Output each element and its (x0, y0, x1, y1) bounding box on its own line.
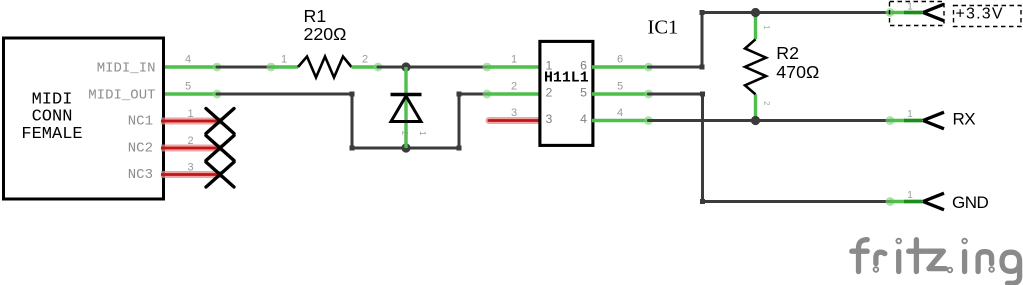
svg-text:220Ω: 220Ω (304, 24, 347, 44)
svg-text:GND: GND (952, 193, 989, 212)
wire pin6 dark up to +3.3V rail (649, 8, 895, 69)
no-connect X on NC2 (206, 136, 234, 161)
GND connector green pin (890, 200, 923, 203)
svg-text:NC1: NC1 (128, 114, 153, 130)
+3.3V arrow symbol (923, 4, 944, 21)
wire pin5 dark down to GND rail (649, 92, 895, 206)
node junction RX rail / R2 (751, 116, 760, 125)
wire green into pin 2 (487, 92, 540, 95)
wire MIDI_OUT dark detour below diode (217, 90, 491, 151)
fritzing watermark logo (852, 239, 1020, 284)
wire green vertical through diode (404, 67, 407, 148)
dashed selection box around +3.3V pin (890, 2, 945, 26)
svg-text:RX: RX (953, 110, 976, 129)
wire NC1 red stub (161, 118, 222, 125)
svg-text:1: 1 (907, 190, 913, 201)
svg-text:1: 1 (907, 2, 913, 13)
dashed selection box around +3.3V label (954, 6, 1022, 27)
wire MIDI_OUT green stub (160, 90, 221, 99)
svg-text:H11L1: H11L1 (544, 70, 589, 86)
op-coupler U1 H11L1 body (540, 41, 593, 145)
resistor R2 (745, 39, 819, 94)
diode D1 (391, 95, 428, 137)
wire pin4 dark to RX (649, 116, 895, 125)
node junction at diode top (401, 62, 410, 71)
svg-text:3: 3 (546, 112, 553, 126)
svg-text:NC3: NC3 (128, 167, 153, 183)
GND arrow symbol (923, 193, 944, 210)
svg-text:1: 1 (281, 54, 287, 66)
svg-text:2: 2 (546, 86, 553, 100)
connector J1 MIDI CONN FEMALE body (4, 38, 164, 199)
svg-text:2: 2 (762, 101, 771, 106)
svg-text:1: 1 (418, 131, 427, 136)
wire NC3 red stub (161, 171, 222, 178)
svg-text:1: 1 (546, 59, 553, 73)
svg-text:4: 4 (185, 54, 191, 66)
RX arrow symbol (923, 112, 944, 129)
svg-text:R2: R2 (776, 43, 799, 63)
svg-text:+3.3V: +3.3V (956, 6, 1004, 23)
svg-text:2: 2 (400, 131, 409, 136)
svg-text:1: 1 (907, 109, 913, 120)
svg-text:MIDI_IN: MIDI_IN (97, 61, 156, 77)
svg-text:4: 4 (617, 107, 623, 119)
svg-text:CONN: CONN (32, 108, 73, 127)
svg-text:MIDI: MIDI (32, 91, 73, 110)
svg-text:5: 5 (185, 81, 191, 93)
node junction at diode bottom (401, 143, 410, 152)
resistor R2 green stub top (754, 13, 757, 40)
wire pin5 green stub (592, 90, 653, 99)
svg-text:R1: R1 (304, 6, 327, 26)
svg-text:1: 1 (511, 54, 517, 66)
svg-text:2: 2 (187, 135, 193, 147)
svg-text:470Ω: 470Ω (776, 62, 819, 82)
svg-text:3: 3 (187, 162, 193, 174)
wire green lead to R1 (271, 65, 298, 68)
wire green lead from R1 (352, 63, 383, 72)
node junction top rail / R2 (751, 8, 760, 17)
svg-text:6: 6 (617, 54, 623, 66)
wire green into pin 1 (487, 65, 540, 68)
svg-text:NC2: NC2 (128, 141, 153, 157)
no-connect X on NC1 (206, 109, 234, 134)
no-connect X on NC3 (206, 162, 234, 187)
resistor R2 green stub bottom (754, 94, 757, 120)
svg-text:5: 5 (580, 86, 587, 100)
wire MIDI_IN green stub from connector (160, 63, 221, 72)
svg-text:FEMALE: FEMALE (21, 125, 82, 144)
wire pin6 green stub (592, 63, 653, 72)
wire MIDI_IN dark segment (217, 63, 275, 72)
RX connector green pin (890, 119, 923, 122)
+3.3V connector green pin (890, 11, 923, 14)
svg-text:1: 1 (762, 25, 771, 30)
svg-text:5: 5 (617, 81, 623, 93)
svg-text:4: 4 (580, 112, 587, 126)
svg-text:IC1: IC1 (648, 17, 679, 39)
wire pin4 green stub (592, 116, 653, 125)
svg-text:MIDI_OUT: MIDI_OUT (88, 88, 155, 104)
red stub to U1 pin 3 (489, 117, 540, 124)
wire dark segment R1 to U1 pin1 (378, 63, 491, 72)
wire NC2 red stub (161, 145, 222, 152)
svg-text:6: 6 (580, 59, 587, 73)
svg-text:2: 2 (362, 54, 368, 66)
svg-text:1: 1 (187, 108, 193, 120)
resistor R1 (298, 6, 352, 78)
svg-text:2: 2 (511, 81, 517, 93)
